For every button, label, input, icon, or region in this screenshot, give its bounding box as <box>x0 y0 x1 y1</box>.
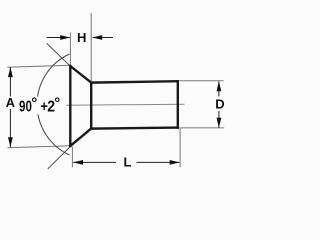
svg-text:°: ° <box>54 95 60 112</box>
svg-text:L: L <box>124 155 132 170</box>
svg-text:°: ° <box>31 95 37 112</box>
svg-text:H: H <box>77 30 86 45</box>
svg-text:90: 90 <box>19 99 32 116</box>
svg-text:A: A <box>6 95 16 110</box>
svg-text:D: D <box>215 96 224 111</box>
